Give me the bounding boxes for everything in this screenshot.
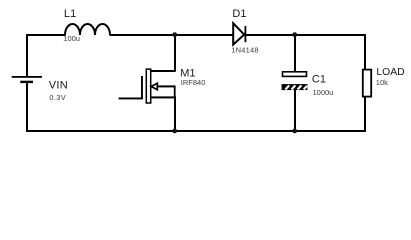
gate lead [119,98,143,100]
wire top-left segment [26,34,66,36]
top stub [294,34,296,72]
source horizontal [151,96,176,98]
bottom plate hatched [282,84,308,90]
inductor L1 [65,24,110,35]
svg-text:0.3V: 0.3V [49,93,66,102]
wire right rail lower [364,98,366,133]
wire top-mid segment [110,34,234,36]
node dot M1 source [172,129,177,134]
drain vertical [174,34,176,72]
top plate [283,72,307,77]
node dot M1 drain [172,32,177,37]
node dot C1 top [292,32,297,37]
svg-text:L1: L1 [64,8,76,20]
gate plate [141,76,143,99]
svg-text:1N4148: 1N4148 [231,45,258,54]
svg-text:LOAD: LOAD [376,67,404,78]
svg-text:D1: D1 [232,8,246,20]
node dot C1 bottom [292,129,297,134]
wire bottom rail [26,130,366,132]
capacitor C1 [282,34,308,132]
bottom stub [294,90,296,132]
svg-text:1000u: 1000u [313,88,334,97]
wire right rail upper [364,34,366,69]
battery VIN [12,76,42,83]
svg-text:IRF840: IRF840 [181,78,206,87]
wire left rail lower [26,83,28,132]
svg-text:100u: 100u [63,34,80,43]
source vertical [174,97,176,133]
resistor LOAD [363,70,371,97]
wire top-right segment [245,34,366,36]
svg-text:VIN: VIN [49,80,68,92]
diode D1 [233,23,246,44]
drain horizontal [151,70,175,72]
body horizontal with arrow [151,85,175,87]
channel bar [146,69,150,103]
wire left rail upper [26,34,28,76]
svg-text:C1: C1 [312,73,326,85]
svg-text:10k: 10k [376,78,388,87]
mosfet M1 [119,34,176,132]
